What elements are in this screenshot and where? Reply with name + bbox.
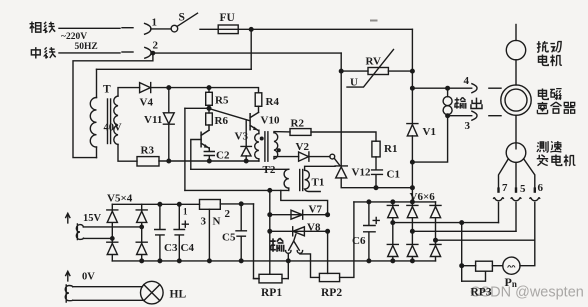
meter Pn inner mark xyxy=(508,266,515,268)
regulator N box xyxy=(200,200,221,210)
wire primary top rail xyxy=(97,68,252,70)
node C4 bottom xyxy=(178,259,182,263)
winding 0V xyxy=(65,285,73,302)
wire RP3 tap vertical xyxy=(461,223,463,282)
label 输出 xyxy=(455,97,466,108)
node C6 bottom xyxy=(367,259,371,263)
transformer T1 left top wire xyxy=(191,168,289,170)
node output jack top xyxy=(446,86,450,90)
svg-text:V7: V7 xyxy=(309,203,323,215)
resistor R1 xyxy=(372,141,380,157)
rect col2 branch xyxy=(411,202,413,261)
svg-text:2: 2 xyxy=(153,40,159,52)
fuse FU body xyxy=(218,25,238,34)
wire 15V bottom to bridge left mid xyxy=(83,237,112,239)
wire contact1 to switch xyxy=(151,28,171,30)
wire bridge left branch xyxy=(111,204,113,261)
pin tip 6 xyxy=(534,189,536,192)
node N ground xyxy=(208,259,212,263)
wire phase lead dash xyxy=(122,27,133,29)
pin tip 7 xyxy=(497,189,499,192)
wire RV right lead xyxy=(388,70,412,72)
svg-text:~220V: ~220V xyxy=(61,32,87,42)
svg-text:RP1: RP1 xyxy=(261,287,282,299)
wire 15V top to bridge right mid xyxy=(83,226,141,228)
node C3 bottom xyxy=(158,259,162,263)
node output4 branch xyxy=(411,86,415,90)
transformer T primary winding xyxy=(90,98,96,148)
diode V8 xyxy=(293,227,305,236)
svg-text:V4: V4 xyxy=(140,96,154,108)
wire phase B line xyxy=(412,230,516,232)
varistor RV diagonal xyxy=(347,50,394,88)
tacho circle xyxy=(506,143,526,163)
rect col3 branch xyxy=(435,202,437,261)
resistor R3 xyxy=(137,157,159,166)
node phase B col2 xyxy=(411,230,415,234)
svg-text:V8: V8 xyxy=(307,221,321,233)
wire N output xyxy=(220,203,253,205)
svg-text:2: 2 xyxy=(225,208,231,220)
resistor R2 xyxy=(290,129,311,136)
svg-text:4: 4 xyxy=(464,75,470,87)
node V3 bottom xyxy=(244,159,248,163)
svg-text:6: 6 xyxy=(538,182,544,194)
diode V1 xyxy=(407,124,418,136)
diode V5a xyxy=(107,210,118,223)
wire phase A line xyxy=(393,222,499,224)
wire RP3 wiper loop xyxy=(462,271,486,281)
wire clutch stub top xyxy=(489,87,501,89)
wire lamp bottom lead xyxy=(73,299,144,301)
node V7V8 top junction xyxy=(268,189,272,193)
svg-text:40V: 40V xyxy=(104,123,123,134)
socket cup 6 xyxy=(530,198,540,201)
node V1 bottom junction xyxy=(411,160,415,164)
node C5 top xyxy=(239,202,243,206)
wire input pin split xyxy=(289,234,300,250)
svg-text:5: 5 xyxy=(520,183,526,195)
socket cup 5 xyxy=(511,198,521,201)
input socket left xyxy=(286,251,291,254)
svg-text:N: N xyxy=(213,215,221,227)
wire V2 to gate circle xyxy=(309,156,330,158)
svg-text:S: S xyxy=(179,12,185,24)
wire V7 line xyxy=(270,214,328,216)
clutch inner circle xyxy=(505,89,527,111)
node contact2 junction xyxy=(151,51,154,54)
label 中线 xyxy=(31,47,40,58)
wire V4 to R4 corner xyxy=(151,88,259,93)
wire V9 emitter to C2 xyxy=(208,148,210,151)
node C5 bottom xyxy=(239,259,243,263)
svg-text:V2: V2 xyxy=(296,141,310,153)
wire V7V8 left vertical xyxy=(269,190,271,274)
capacitor C1 xyxy=(372,170,383,188)
node V8 ends xyxy=(268,230,272,234)
node C6 top xyxy=(367,200,371,204)
wire phase down from fuse xyxy=(250,29,252,69)
svg-text:1: 1 xyxy=(183,206,188,216)
wire N ground pin xyxy=(208,209,210,261)
diode V6b xyxy=(407,205,418,217)
meter Pn circle xyxy=(503,257,520,274)
node R5 top junction xyxy=(207,86,211,90)
node phase C col3 xyxy=(434,238,438,242)
wire feedback bottom xyxy=(185,189,289,191)
transformer T1 left winding xyxy=(284,169,289,190)
tacho inner stub xyxy=(515,144,517,149)
svg-text:C6: C6 xyxy=(352,235,366,247)
wire secondary top lead xyxy=(118,88,140,96)
wire R1 to C1 xyxy=(375,157,377,170)
node rect col1 top xyxy=(391,200,395,204)
wire N output down to RP1 left xyxy=(254,204,260,279)
output socket 3 xyxy=(472,111,477,120)
capacitor C3 xyxy=(155,204,165,261)
svg-text:HL: HL xyxy=(170,288,187,300)
wire through fuse xyxy=(218,28,238,30)
T2 polarity dots xyxy=(260,137,263,140)
svg-text:C3: C3 xyxy=(164,242,178,254)
node bridge mids xyxy=(140,225,143,228)
transistor V9 oscillator xyxy=(201,125,209,148)
label 测速发电机 xyxy=(537,141,548,152)
artifact dash xyxy=(370,20,378,22)
wire V8 line xyxy=(270,230,328,232)
plus sign C6 xyxy=(373,217,379,223)
node rail bridge right xyxy=(140,259,144,263)
wire T2 right top to R2 xyxy=(274,132,290,133)
svg-text:T1: T1 xyxy=(312,176,325,188)
wire lamp top lead xyxy=(73,286,143,288)
svg-text:RV: RV xyxy=(366,55,382,67)
transformer T2 core xyxy=(264,132,266,161)
svg-text:RP3: RP3 xyxy=(471,287,492,299)
drive motor circle xyxy=(506,40,525,59)
node input left rail junction xyxy=(287,259,291,263)
input socket right xyxy=(297,251,302,254)
node phase A col1 xyxy=(391,221,395,225)
wire bridge right branch xyxy=(141,204,143,261)
output jack circles xyxy=(447,88,449,96)
svg-text:3: 3 xyxy=(465,120,471,132)
wire V9 base xyxy=(191,140,201,170)
svg-text:C4: C4 xyxy=(181,242,195,254)
wire V12 anode lead xyxy=(341,178,412,188)
capacitor C2 xyxy=(204,152,214,162)
wire bottom rail xyxy=(112,260,435,262)
svg-text:RP2: RP2 xyxy=(321,287,342,299)
wire switch to fuse xyxy=(200,28,218,30)
wire cup7 to phase line xyxy=(498,203,500,223)
svg-text:C5: C5 xyxy=(222,231,236,243)
socket cup 7 xyxy=(494,198,504,201)
pin tip 5 xyxy=(515,189,517,192)
svg-text:3: 3 xyxy=(201,215,207,227)
diode V6c xyxy=(430,205,441,217)
wire rectifier top rail xyxy=(354,201,436,203)
node C1 bottom junction xyxy=(374,186,378,190)
wire junction left xyxy=(185,107,209,109)
tacho leg 5 xyxy=(515,162,517,191)
node gate terminal circle xyxy=(330,154,335,159)
wire phase lead-in xyxy=(59,27,120,29)
lamp HL xyxy=(141,281,164,304)
wire R5 top stub xyxy=(208,88,210,93)
wire RP2 right lead xyxy=(340,202,354,278)
wire cup5 down xyxy=(515,203,517,232)
node rectifier feed junction xyxy=(411,186,415,190)
wire R2 to R1 xyxy=(311,132,376,141)
wire V3 bottom lead xyxy=(245,156,247,161)
svg-text:R6: R6 xyxy=(215,115,229,127)
svg-text:R3: R3 xyxy=(141,144,155,156)
varistor RV body xyxy=(368,68,388,75)
wire V10 base diagonal xyxy=(209,109,250,121)
svg-text:T: T xyxy=(103,84,111,96)
wire neutral drop xyxy=(73,53,153,158)
label 输入 xyxy=(270,238,283,252)
wire left feedback vertical xyxy=(184,108,186,190)
node V7 ends xyxy=(268,213,272,217)
wire R3 to C2 node xyxy=(159,160,259,162)
svg-text:V10: V10 xyxy=(261,115,280,127)
tacho leg 7 xyxy=(499,159,509,192)
svg-text:0V: 0V xyxy=(82,271,95,282)
transformer T1 core xyxy=(299,170,301,191)
node contact 2 socket xyxy=(145,47,151,58)
wire fuse to right vertical xyxy=(238,28,412,30)
capacitor C4 polarized xyxy=(174,204,184,261)
switch S blade xyxy=(177,13,197,26)
svg-text:1: 1 xyxy=(152,17,158,29)
svg-text:T2: T2 xyxy=(263,164,276,176)
wire bridge top rail to N xyxy=(112,203,199,205)
resistor R5 xyxy=(206,92,213,105)
svg-text:R2: R2 xyxy=(291,117,305,129)
wire R4 bottom stub xyxy=(258,106,260,112)
switch S hinge xyxy=(171,25,178,32)
node RV left junction xyxy=(339,69,343,73)
wire R5 bottom stub xyxy=(208,105,210,113)
diode V6a xyxy=(387,205,398,217)
node C3 top xyxy=(158,203,162,207)
wire V1 down xyxy=(411,136,413,202)
rheostat RP3 xyxy=(476,261,493,271)
svg-text:U: U xyxy=(350,76,358,88)
svg-text:V6×6: V6×6 xyxy=(410,191,436,203)
transformer T2 left winding xyxy=(255,134,259,161)
svg-text:FU: FU xyxy=(220,12,236,24)
wire input left cup down xyxy=(287,254,289,279)
node RP3 tap top xyxy=(460,221,464,225)
svg-text:C2: C2 xyxy=(216,149,230,161)
node fuse output junction xyxy=(249,28,253,32)
wire output line 3 xyxy=(448,115,472,117)
winding 15V xyxy=(76,224,83,240)
svg-text:50HZ: 50HZ xyxy=(75,42,98,52)
svg-text:V1: V1 xyxy=(423,126,436,138)
capacitor C6 xyxy=(364,202,375,261)
node V11 bottom junction xyxy=(167,159,171,163)
diode V3 xyxy=(241,146,251,156)
wire primary top lead xyxy=(96,69,98,97)
transformer T core xyxy=(107,99,109,144)
wire clutch stub bottom xyxy=(489,115,501,117)
transformer T secondary winding xyxy=(114,96,118,145)
wire cup6 to Pn xyxy=(520,240,535,266)
wire phase right vertical xyxy=(411,29,413,123)
label 拖动电机 xyxy=(537,41,548,52)
transformer T2 right winding xyxy=(274,133,278,159)
shaft clutch to tacho xyxy=(515,115,517,143)
rect col1 branch xyxy=(392,202,394,261)
wire input right cup to RP2 xyxy=(300,254,320,278)
svg-text:V5×4: V5×4 xyxy=(107,192,133,204)
arrow 15V winding polarity xyxy=(66,213,70,223)
shaft motor to clutch xyxy=(515,60,517,85)
diode V5d xyxy=(136,242,147,254)
svg-text:V12: V12 xyxy=(352,166,371,178)
output socket 4 xyxy=(472,84,477,93)
node C2 bottom xyxy=(208,159,212,163)
wire V11 anode lead xyxy=(168,88,170,113)
label 相线 xyxy=(30,22,41,33)
wire RP1 left lead xyxy=(254,278,260,280)
wire neutral down to V12 xyxy=(340,53,342,166)
diode V4 xyxy=(140,83,151,93)
diode V2 xyxy=(299,152,309,161)
svg-text:R4: R4 xyxy=(266,96,280,108)
resistor R6 xyxy=(206,113,213,125)
wire neutral to RV branch xyxy=(151,52,341,54)
wire RP3 left lead xyxy=(462,265,476,267)
svg-text:7: 7 xyxy=(502,182,508,194)
potentiometer RP2 xyxy=(319,273,339,281)
node contact 1 socket xyxy=(145,23,151,34)
node RP3 left junction xyxy=(460,264,464,268)
plus sign C4 xyxy=(182,221,188,227)
wire cup6 down xyxy=(534,203,536,241)
node rect col2 top xyxy=(411,200,415,204)
svg-text:V3: V3 xyxy=(235,131,249,143)
capacitor C5 xyxy=(236,204,246,261)
wire T2 right bottom to V2 xyxy=(274,157,299,159)
wire T1 drop to V7 rail xyxy=(281,190,328,214)
svg-text:R1: R1 xyxy=(384,143,397,155)
diode V11 xyxy=(163,113,174,124)
diode V6e xyxy=(407,244,418,256)
svg-text:R5: R5 xyxy=(215,94,229,106)
node rail col1 xyxy=(391,259,395,263)
svg-text:C1: C1 xyxy=(387,168,400,180)
label 电磁离合器 xyxy=(538,89,548,100)
clutch outer circle xyxy=(501,85,531,115)
diode V6d xyxy=(387,244,398,256)
tacho leg 6 xyxy=(524,159,535,192)
wire V11 cathode lead xyxy=(168,124,170,161)
wire primary bottom stub xyxy=(96,147,98,158)
transistor V10 xyxy=(250,112,258,130)
wire RV left lead xyxy=(341,70,368,72)
shaft drive motor xyxy=(515,25,517,41)
wire RP1 right lead xyxy=(282,278,288,280)
wire phase C line xyxy=(436,239,535,241)
potentiometer RP1 xyxy=(259,274,282,283)
wire V10 emitter to T2 xyxy=(258,130,260,133)
diode V5c xyxy=(107,242,118,254)
node R5 R6 junction xyxy=(207,107,211,111)
wire neutral lead-in xyxy=(59,52,120,54)
wire RP2 wiper xyxy=(327,231,329,273)
diode V6f xyxy=(430,244,441,256)
arrow 0V winding polarity xyxy=(66,271,70,281)
thyristor V12 xyxy=(335,166,347,178)
svg-text:15V: 15V xyxy=(83,213,102,224)
node C4 top xyxy=(178,203,182,207)
node RV right junction xyxy=(411,69,415,73)
wire neutral lead dash xyxy=(122,51,133,53)
svg-text:V11: V11 xyxy=(144,114,162,126)
wire output3 down xyxy=(412,116,447,162)
resistor R4 xyxy=(255,93,262,107)
wire secondary bottom lead xyxy=(118,145,137,162)
transformer T1 right winding xyxy=(305,170,321,191)
diode V7 xyxy=(291,210,303,219)
wire RP3 to Pn xyxy=(492,265,502,267)
node rail col2 xyxy=(411,259,415,263)
node V11 top junction xyxy=(167,86,171,90)
wire T1 right top to V12 cathode xyxy=(305,166,336,170)
wire output line 4 xyxy=(412,87,471,89)
node output jack bottom xyxy=(446,114,450,118)
diode V5b xyxy=(136,210,147,223)
wire V3 top lead xyxy=(245,120,247,147)
wire gate diagonal xyxy=(334,158,340,166)
